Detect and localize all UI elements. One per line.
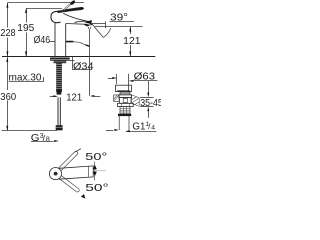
drain body middle — [120, 98, 132, 104]
arrow 228 top — [6, 3, 8, 8]
35-45 lower arrow — [147, 107, 149, 112]
dimension 121 horizontal: right arrow — [90, 95, 95, 97]
spout tip lower wedge — [84, 24, 91, 27]
svg-text:max.30: max.30 — [9, 73, 42, 84]
aerator outlet ticks — [87, 27, 89, 29]
mounting nut — [54, 61, 67, 64]
raised lever thin outline — [61, 1, 72, 11]
extension line outlet reach (121 horizontal ref) — [89, 29, 91, 96]
Ø34 leader vertical — [72, 57, 74, 70]
lever paddle (closed position) — [57, 7, 84, 13]
dimension 121 horizontal: left arrow — [50, 96, 54, 98]
svg-text:195: 195 — [17, 23, 34, 34]
39° diagonal ray — [92, 24, 104, 38]
top view lever inner tick — [87, 166, 89, 176]
spout front slope line — [63, 13, 87, 21]
39° end tick — [105, 21, 107, 28]
shank end nut — [57, 92, 62, 95]
svg-text:Ø34: Ø34 — [73, 61, 94, 72]
cartridge dome outline — [51, 11, 61, 22]
arrow 121v top — [129, 27, 131, 32]
faucet body left edge — [54, 22, 56, 56]
max.30 underline — [9, 81, 44, 83]
drain threaded tail — [120, 107, 130, 114]
svg-text:360: 360 — [0, 92, 16, 103]
drain plug stem — [120, 92, 130, 95]
arrow 360 top — [6, 57, 8, 62]
svg-text:228: 228 — [0, 28, 15, 39]
G3/8 underline — [31, 141, 54, 143]
flexible hose outline — [57, 97, 59, 125]
leader Ø46 — [49, 41, 55, 43]
spout tip top edge — [75, 21, 91, 22]
drain plug cap — [115, 85, 131, 91]
35-45 lower reference line — [140, 106, 154, 108]
spout underside line — [66, 23, 88, 26]
hose end reference line — [2, 130, 57, 132]
svg-text:121: 121 — [123, 36, 141, 47]
raised lever dark tip — [70, 0, 75, 5]
drain locknut — [118, 103, 134, 106]
nut side leader line — [70, 60, 75, 62]
swing centerline — [95, 170, 105, 172]
svg-text:39°: 39° — [110, 13, 128, 24]
arrow 195 top — [25, 8, 27, 13]
Ø63 dimension: left arrow — [108, 78, 114, 80]
top view center dot — [54, 172, 58, 176]
swing arc at lever tip — [93, 162, 96, 181]
extension line top of lever (228 ref) — [7, 2, 84, 4]
swing arc up arrowhead — [93, 165, 97, 170]
top view body circle — [49, 168, 61, 180]
Ø63 dimension: right arrow and tail — [129, 80, 134, 82]
deck wedge right of drain (hatched) — [132, 95, 140, 106]
deck wedge left of drain (hatched) — [114, 95, 119, 101]
arrow 195 bottom — [25, 51, 27, 56]
drain collar flange — [119, 95, 132, 98]
Ø34 underline — [72, 69, 92, 71]
39° arrow at outlet — [85, 20, 92, 24]
G1 1/4 underline left arrowhead — [125, 130, 130, 132]
39° underline — [110, 21, 135, 23]
threaded shank — [56, 63, 62, 92]
ghost lever upper (50° up) — [58, 151, 78, 171]
Ø63 extension lines — [116, 74, 118, 84]
35-45 upper arrow — [148, 81, 150, 93]
svg-text:50°: 50° — [85, 152, 107, 163]
svg-text:50°: 50° — [85, 183, 108, 194]
39° horizontal ray — [92, 23, 106, 25]
dimension 360 vertical line — [7, 57, 9, 90]
pop-up waste pull rod — [66, 41, 74, 43]
faucet body right edge — [65, 23, 67, 56]
drain tail end cap — [118, 114, 131, 116]
lower arc arrowhead — [81, 194, 85, 199]
svg-text:Ø46: Ø46 — [34, 35, 51, 46]
svg-text:G1: G1 — [132, 122, 145, 133]
upper arc segment — [75, 149, 81, 153]
svg-text:121: 121 — [66, 93, 82, 104]
deck / mounting surface line — [2, 56, 155, 58]
dimension 228 vertical line — [7, 3, 9, 28]
35-45 upper reference line — [140, 97, 154, 99]
G1 1/4 underline — [126, 131, 156, 133]
dimension 195 vertical line — [26, 8, 28, 22]
drain outlet pipe — [118, 116, 120, 130]
spout tip nose — [89, 21, 93, 25]
swing arc down arrowhead — [93, 172, 97, 177]
G1 1/4 leader arrow — [106, 130, 113, 132]
mounting washer under deck — [50, 58, 70, 61]
ghost lever lower (50° down) — [59, 175, 80, 192]
G3/8 leader arrow — [54, 140, 59, 142]
svg-text:8: 8 — [46, 137, 50, 144]
39° arc — [104, 28, 111, 37]
arrow 360 bottom — [6, 126, 8, 131]
svg-text:35-45: 35-45 — [140, 98, 161, 109]
arrow 121v bottom — [129, 51, 131, 56]
svg-text:G: G — [31, 133, 40, 144]
svg-text:4: 4 — [151, 125, 155, 132]
svg-text:Ø63: Ø63 — [134, 72, 156, 83]
arrow 228 bottom — [6, 51, 8, 56]
extension line top of body (195 ref) — [26, 8, 62, 10]
dimension 121 vertical line — [130, 27, 132, 34]
max.30 end tick — [43, 77, 45, 81]
hose end fitting G3/8 — [56, 125, 63, 130]
extension line outlet height (121 ref) — [95, 26, 143, 28]
top view lever outline — [59, 166, 94, 179]
